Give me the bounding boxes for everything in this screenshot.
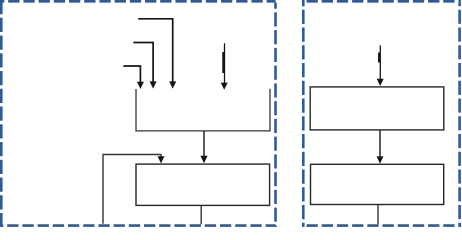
process box (left panel) xyxy=(136,164,270,205)
left dashed panel border xyxy=(0,0,276,227)
elbow arrow A3 (third input, left panel) xyxy=(123,66,144,89)
straight arrow A4 (fourth input, left panel) xyxy=(221,43,228,90)
upper box (right panel) xyxy=(310,87,444,130)
right dashed panel border xyxy=(302,0,461,227)
U-shaped collector (open-top container, left panel) xyxy=(136,89,270,131)
connector arrow between boxes (right panel) xyxy=(377,130,384,163)
connector arrow from collector to process box xyxy=(200,131,207,163)
output line from process box to bottom border xyxy=(200,206,202,225)
output line from lower box to bottom border xyxy=(377,205,379,225)
input arrow (right panel) xyxy=(377,45,384,86)
feedback elbow arrow (from bottom border into process box) xyxy=(103,155,165,224)
elbow arrow A1 (top input, left panel) xyxy=(138,19,176,89)
lower box (right panel) xyxy=(311,164,444,204)
elbow arrow A2 (second input, left panel) xyxy=(133,43,156,89)
